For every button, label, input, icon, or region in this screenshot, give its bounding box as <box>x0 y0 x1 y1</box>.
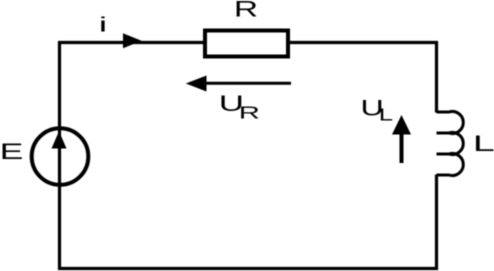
voltage arrow UL head <box>392 115 411 135</box>
svg-text:i: i <box>99 15 107 37</box>
voltage arrow UR head <box>186 76 207 92</box>
wire top <box>58 41 438 44</box>
svg-text:R: R <box>234 0 258 22</box>
svg-text:E: E <box>0 139 23 164</box>
voltage arrow UR shaft <box>205 82 291 85</box>
voltage arrow UL shaft <box>400 134 404 163</box>
current arrowhead <box>123 33 142 48</box>
svg-text:R: R <box>239 103 260 123</box>
wire right upper <box>435 41 438 113</box>
inductor L1 coil <box>437 112 464 176</box>
wire right lower <box>435 175 438 271</box>
svg-text:L: L <box>473 131 494 156</box>
source E arrowhead <box>52 131 67 148</box>
resistor R1 body <box>205 31 288 57</box>
wire bottom <box>58 267 438 270</box>
source E circle <box>32 128 89 185</box>
wire left <box>58 41 61 270</box>
svg-text:L: L <box>379 104 393 124</box>
